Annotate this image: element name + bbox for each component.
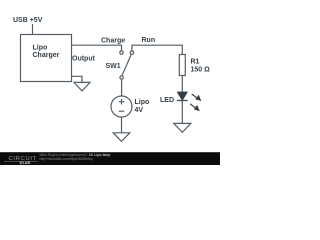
Lipo Charger box outline: [21, 35, 72, 82]
svg-text:Charge: Charge: [101, 38, 125, 45]
svg-text:150 Ω: 150 Ω: [191, 67, 211, 74]
svg-text:Run: Run: [142, 37, 156, 44]
switch SW1 lever: [122, 55, 131, 76]
svg-text:USB +5V: USB +5V: [13, 17, 43, 24]
battery plus sign: [119, 99, 125, 105]
svg-text:http://circuitlab.com/c6pk2843: http://circuitlab.com/c6pk2843bktnp: [40, 157, 93, 161]
switch SW1 pole contact: [120, 76, 123, 79]
wire SW1 pole to battery top: [121, 79, 123, 96]
svg-text:4V: 4V: [135, 107, 144, 114]
LED emission arrow 2: [190, 104, 196, 108]
switch SW1 left throw contact (Charge): [120, 51, 123, 54]
svg-text:Charger: Charger: [33, 52, 60, 59]
LED cathode bar: [177, 100, 188, 102]
LED D1 triangle: [177, 92, 187, 100]
resistor R1 body: [179, 55, 185, 76]
wire Output pin to ground: [71, 76, 82, 82]
battery V1 Lipo 4V circle: [111, 96, 132, 117]
footer bar: [0, 152, 220, 165]
footer CircuitLab logo rule: [4, 160, 38, 162]
ground output net: [74, 82, 90, 91]
svg-text:Lipo: Lipo: [33, 45, 48, 52]
ground battery net: [113, 133, 130, 142]
wire LED cathode to ground: [181, 100, 183, 123]
wire battery bottom to ground: [121, 117, 123, 133]
battery minus sign: [119, 110, 125, 112]
LED emission arrow 1: [190, 94, 201, 111]
svg-text:Lipo: Lipo: [135, 99, 150, 106]
wire Run net: SW1 right throw up and right to R1 top: [132, 45, 182, 54]
ground LED net: [174, 123, 191, 132]
node USB +5V wire stub: [32, 24, 34, 34]
wire R1 bottom to LED anode: [181, 76, 183, 93]
wire Charge net: charger right pin to SW1 left throw: [71, 45, 122, 51]
svg-text:R1: R1: [191, 59, 200, 66]
svg-text:LED: LED: [160, 97, 174, 104]
svg-text:☰LAB: ☰LAB: [20, 160, 31, 165]
svg-text:Output: Output: [72, 56, 96, 63]
svg-text:SW1: SW1: [106, 63, 121, 70]
switch SW1 right throw contact (Run): [130, 51, 133, 54]
label USB +5V: [13, 17, 210, 114]
